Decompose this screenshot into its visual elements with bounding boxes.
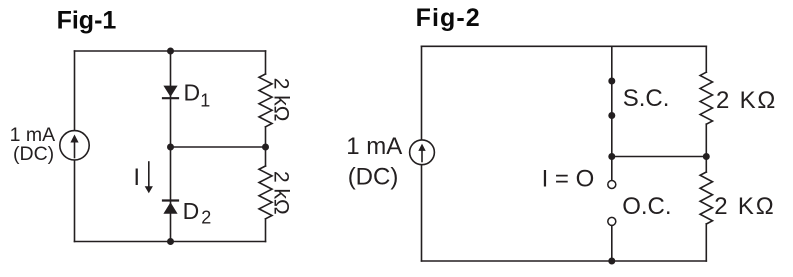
wire right top lead Fig-2: [705, 46, 707, 72]
current source I1 1mA: [60, 131, 89, 160]
node junction mid-right Fig-2: [703, 153, 710, 160]
svg-text:Fig-1: Fig-1: [57, 7, 117, 35]
arrow current I: [145, 162, 153, 193]
diode D1: [163, 86, 178, 99]
node S.C. terminal upper: [608, 78, 615, 85]
svg-text:1 mA: 1 mA: [346, 133, 402, 160]
wire right top lead Fig-1: [265, 51, 267, 74]
label D2: [183, 198, 212, 227]
svg-text:(DC): (DC): [348, 163, 399, 190]
svg-text:Fig-2: Fig-2: [416, 4, 481, 32]
wire middle horizontal Fig-2: [612, 156, 707, 158]
svg-text:D: D: [183, 198, 200, 224]
wire right middle lead Fig-1: [265, 127, 267, 166]
wire top Fig-2: [422, 45, 707, 47]
terminal O.C. lower open: [608, 217, 616, 225]
node junction bottom Fig-2: [608, 258, 615, 265]
wire right bottom lead Fig-1: [265, 219, 267, 242]
svg-text:D: D: [184, 79, 201, 105]
wire left Fig-2: [421, 46, 423, 261]
current source I2 1mA: [410, 140, 435, 165]
wire middle branch upper Fig-2: [611, 46, 613, 180]
svg-text:1: 1: [200, 91, 210, 111]
svg-text:I: I: [133, 164, 140, 191]
svg-text:I = O: I = O: [542, 166, 595, 193]
node junction top Fig-1: [167, 48, 174, 55]
node junction mid-left Fig-1: [167, 144, 174, 151]
svg-text:(DC): (DC): [13, 143, 54, 165]
resistor R1 2 kOhm: [259, 74, 272, 127]
resistor R4 2 KOhm: [700, 172, 712, 224]
svg-text:2 kΩ: 2 kΩ: [270, 171, 293, 215]
svg-text:2: 2: [201, 207, 211, 227]
terminal O.C. upper open: [608, 181, 616, 189]
node junction bottom Fig-1: [167, 238, 174, 245]
wire bottom Fig-2: [422, 260, 707, 262]
resistor R2 2 kOhm: [259, 166, 272, 219]
label D1: [184, 79, 211, 110]
label source 1 mA (DC): [10, 124, 56, 165]
node junction mid-right Fig-1: [262, 144, 269, 151]
svg-text:2 KΩ: 2 KΩ: [714, 193, 775, 220]
wire right middle lead Fig-2: [705, 124, 707, 172]
wire right bottom lead Fig-2: [705, 224, 707, 261]
wire bottom Fig-1: [75, 241, 266, 243]
diode D2: [163, 201, 178, 214]
node junction mid-left Fig-2: [608, 153, 615, 160]
resistor R3 2 KOhm: [700, 72, 712, 124]
svg-text:S.C.: S.C.: [623, 85, 670, 112]
wire middle branch Fig-1: [170, 51, 172, 242]
svg-text:2 KΩ: 2 KΩ: [716, 87, 777, 114]
node S.C. terminal lower: [608, 112, 615, 119]
svg-text:O.C.: O.C.: [622, 193, 671, 220]
wire top Fig-1: [75, 50, 266, 52]
wire middle horizontal Fig-1: [171, 146, 266, 148]
wire left Fig-1: [74, 51, 76, 242]
label source2 1 mA (DC): [346, 133, 402, 190]
wire middle branch lower Fig-2: [611, 226, 613, 262]
svg-text:2 kΩ: 2 kΩ: [270, 78, 293, 122]
